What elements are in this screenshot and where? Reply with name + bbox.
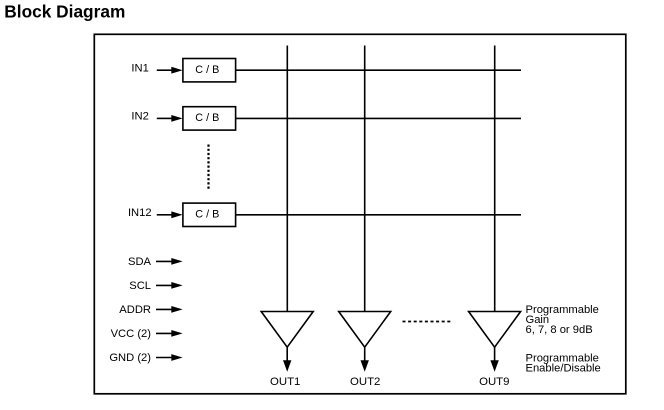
svg-text:IN2: IN2	[131, 111, 148, 123]
svg-text:SCL: SCL	[129, 280, 151, 292]
svg-text:IN12: IN12	[128, 207, 152, 219]
svg-text:IN1: IN1	[131, 63, 148, 75]
svg-text:6, 7, 8 or 9dB: 6, 7, 8 or 9dB	[526, 324, 593, 336]
svg-text:GND (2): GND (2)	[109, 352, 151, 364]
svg-text:C / B: C / B	[195, 209, 219, 221]
svg-text:OUT2: OUT2	[350, 376, 380, 388]
svg-text:Block Diagram: Block Diagram	[4, 1, 125, 21]
svg-text:OUT1: OUT1	[270, 376, 300, 388]
svg-text:C / B: C / B	[195, 64, 219, 76]
svg-text:Enable/Disable: Enable/Disable	[526, 362, 601, 374]
svg-text:VCC (2): VCC (2)	[111, 328, 152, 340]
svg-text:C / B: C / B	[195, 112, 219, 124]
svg-text:ADDR: ADDR	[119, 304, 151, 316]
svg-text:OUT9: OUT9	[479, 376, 509, 388]
svg-text:SDA: SDA	[128, 256, 152, 268]
